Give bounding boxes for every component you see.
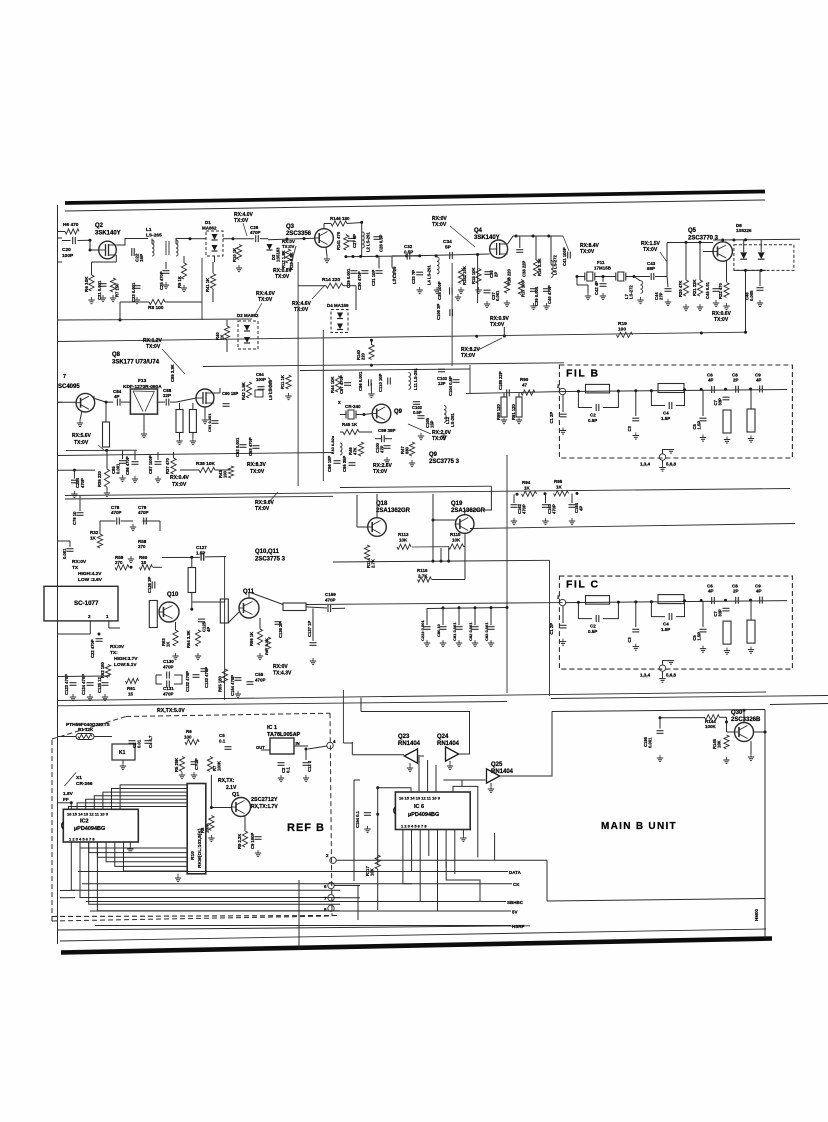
svg-text:IC 6: IC 6 — [414, 804, 424, 810]
svg-text:X1: X1 — [76, 775, 82, 781]
capacitor C26 470P — [233, 225, 268, 242]
svg-text:C222 0.001: C222 0.001 — [420, 620, 425, 641]
wire Q10 collector — [190, 593, 193, 611]
svg-text:1.5P: 1.5P — [661, 416, 670, 421]
voltage block RXTX HIGH — [72, 559, 103, 583]
svg-text:L2 LS-291: L2 LS-291 — [366, 232, 371, 252]
wire q19 net — [432, 519, 451, 563]
resistor R18 220 — [504, 268, 512, 306]
wire sc1077 outs — [58, 628, 121, 634]
wire bus y692 long — [58, 692, 767, 701]
svg-text:C40 470P: C40 470P — [547, 285, 552, 304]
svg-text:1.5P: 1.5P — [697, 421, 702, 430]
svg-text:0.1: 0.1 — [286, 767, 291, 773]
resistor R19 100 — [617, 321, 633, 337]
resistor R6 10K — [84, 275, 94, 292]
svg-text:Q8: Q8 — [112, 352, 121, 358]
resistor R42 1.5K — [241, 382, 252, 400]
resistor R66 1K — [249, 618, 263, 660]
svg-text:470P: 470P — [255, 678, 266, 683]
IC6 notch — [394, 807, 396, 814]
svg-text:470P: 470P — [163, 692, 174, 697]
wire vertical x343 — [342, 690, 344, 743]
svg-text:0.001: 0.001 — [62, 548, 67, 559]
svg-text:Q23: Q23 — [398, 734, 410, 740]
voltage RX2.6 — [373, 463, 393, 475]
bus SBHBC — [86, 900, 524, 905]
ground C21 — [100, 295, 106, 302]
voltage RX0V top — [432, 216, 447, 228]
svg-text:C124 470P: C124 470P — [81, 674, 86, 695]
svg-text:RX:0.4V: RX:0.4V — [170, 475, 190, 481]
capacitor C102 0.5P — [412, 402, 423, 415]
svg-text:C87 100P: C87 100P — [148, 455, 153, 474]
pointer Q4 — [450, 226, 475, 247]
IC6 bottom pin wires — [403, 830, 455, 875]
bus DATA — [78, 870, 522, 875]
transistor Q4 label — [474, 228, 500, 241]
capacitor C5 01 — [219, 733, 232, 749]
svg-text:C194 0.1: C194 0.1 — [355, 810, 360, 828]
bottom heavy border bar — [61, 939, 772, 953]
ground Q8 boxes — [176, 433, 196, 445]
svg-text:RX,TX:: RX,TX: — [218, 778, 235, 784]
svg-text:K1: K1 — [119, 750, 126, 756]
ground R10 bottom — [175, 874, 181, 882]
svg-text:REF B: REF B — [287, 822, 325, 834]
capacitor C79 470P — [130, 505, 160, 531]
capacitor C25 470P — [159, 262, 170, 290]
svg-text:C25 470P: C25 470P — [159, 271, 164, 290]
svg-text:C132 470P: C132 470P — [185, 671, 190, 692]
svg-text:2P: 2P — [493, 272, 498, 277]
svg-text:15P: 15P — [139, 254, 144, 262]
main b unit top edge — [552, 710, 765, 712]
capacitor C33 7P — [411, 270, 423, 294]
capacitor C78 470P — [100, 505, 133, 525]
resistor R65 180 — [218, 669, 228, 692]
wire bus y929 — [58, 926, 531, 930]
capacitor C2 01b — [278, 763, 291, 782]
svg-text:RN1404: RN1404 — [437, 741, 460, 747]
resistor R64 3.3K — [186, 630, 201, 660]
resistor R17 100 — [518, 280, 525, 298]
inductor L12 LS-291 — [441, 406, 455, 440]
svg-text:TX:0V: TX:0V — [146, 344, 161, 350]
svg-text:R91 120: R91 120 — [511, 403, 516, 420]
inductor L1 label — [146, 227, 162, 239]
svg-text:Q24: Q24 — [437, 734, 449, 740]
svg-text:C80 10: C80 10 — [436, 623, 441, 637]
svg-text:C38 22P: C38 22P — [522, 260, 527, 277]
ground Q8 source — [202, 407, 208, 424]
svg-text:3SK140Y: 3SK140Y — [95, 231, 121, 237]
svg-text:MAIN B UNIT: MAIN B UNIT — [601, 821, 677, 832]
svg-text:R12 1.8K: R12 1.8K — [281, 250, 286, 268]
wire x361 stub — [360, 698, 362, 712]
voltage RX8.2 — [461, 338, 502, 359]
svg-text:SC-1077: SC-1077 — [74, 600, 99, 607]
node dot Q2 in — [89, 239, 92, 252]
svg-text:TX:0V: TX:0V — [373, 469, 388, 475]
resistor R141 470 — [336, 223, 362, 257]
capacitor C122 C123 C124 C125 — [64, 674, 109, 701]
svg-text:C42 4P: C42 4P — [594, 281, 599, 295]
wire ic1 top — [282, 728, 284, 741]
svg-text:C83 0.001: C83 0.001 — [484, 622, 489, 641]
inductor L2 — [362, 232, 370, 252]
svg-text:2P: 2P — [733, 589, 739, 594]
IC2 label — [74, 819, 105, 833]
svg-text:C90 18P: C90 18P — [222, 391, 239, 396]
resistor R144 100K — [705, 715, 720, 729]
svg-text:100: 100 — [618, 327, 626, 333]
svg-text:4P: 4P — [579, 506, 584, 511]
wire bus y561 — [333, 560, 550, 562]
svg-text:C29 0.001: C29 0.001 — [346, 268, 351, 288]
ground IC6 pin8 — [460, 830, 466, 842]
capacitor C104 0.5P — [448, 376, 460, 396]
svg-text:C91 0.001: C91 0.001 — [207, 413, 212, 432]
inductor L1b coil — [176, 240, 178, 256]
svg-text:470P: 470P — [522, 504, 527, 514]
wire main box corner vert — [494, 833, 496, 860]
ground R142 R15 — [458, 287, 482, 294]
voltage RXTX 5.0V — [157, 708, 185, 714]
resistor R90 47 — [520, 377, 535, 395]
svg-text:R99 120: R99 120 — [496, 403, 501, 420]
svg-text:RX,TX:1.7V: RX,TX:1.7V — [251, 804, 278, 810]
svg-text:TX:0V: TX:0V — [490, 322, 505, 328]
capacitor C85 0.001 — [111, 450, 126, 474]
svg-text:RX:8.3V: RX:8.3V — [247, 462, 267, 468]
svg-text:TX:0V: TX:0V — [643, 247, 658, 253]
svg-text:4P: 4P — [708, 589, 714, 594]
ground C25 — [163, 282, 169, 289]
svg-text:100K: 100K — [217, 761, 222, 771]
svg-text:C81 0.001: C81 0.001 — [452, 622, 457, 641]
capacitor C126 3P — [147, 576, 155, 593]
svg-text:C89 3.3K: C89 3.3K — [170, 364, 175, 382]
svg-text:2SC3775 3: 2SC3775 3 — [429, 459, 460, 465]
svg-text:TX:0V: TX:0V — [432, 436, 447, 442]
capacitor C163 470P — [542, 494, 557, 525]
bottom thin border line — [60, 929, 766, 941]
svg-text:270: 270 — [115, 560, 123, 565]
inductor L9 LS-265 — [268, 378, 273, 400]
svg-text:4P: 4P — [206, 627, 211, 632]
wire Q11 base — [228, 612, 239, 623]
wire H6 left — [58, 231, 66, 233]
svg-text:C34: C34 — [443, 239, 452, 245]
svg-text:R1 12K: R1 12K — [78, 727, 94, 732]
svg-text:0.5P: 0.5P — [404, 250, 413, 255]
capacitor C80 10 — [436, 606, 447, 646]
transistor SC4095 label — [58, 374, 80, 390]
diode D1 dashed box — [206, 231, 223, 256]
svg-text:C12 2: C12 2 — [307, 760, 312, 772]
svg-text:C3: C3 — [627, 425, 632, 431]
svg-text:TX:4.3V: TX:4.3V — [273, 671, 292, 677]
svg-text:LOW :3.6V: LOW :3.6V — [78, 577, 103, 583]
svg-text:1.5P: 1.5P — [697, 632, 702, 641]
svg-text:Q25: Q25 — [491, 762, 503, 768]
svg-text:5P: 5P — [445, 245, 452, 251]
bus HSRF — [95, 924, 525, 929]
svg-text:R115: R115 — [450, 532, 461, 537]
svg-text:C96 0.001: C96 0.001 — [358, 371, 363, 391]
capacitor C34 5P — [443, 239, 452, 259]
transistor Q1 label — [232, 792, 278, 810]
capacitor C155 470P — [247, 672, 266, 684]
wire IC2 fan to bus — [71, 842, 340, 911]
svg-text:µPD4094BG: µPD4094BG — [408, 812, 439, 818]
wire F11 out up — [666, 258, 668, 277]
svg-text:R41 1K: R41 1K — [205, 278, 210, 292]
label 1.8V FF — [63, 791, 74, 803]
wire Q19 vert link — [464, 533, 466, 561]
svg-text:C23 0.001: C23 0.001 — [131, 282, 136, 302]
resistor box pre-Q10 — [149, 601, 157, 628]
IC1 out in — [256, 741, 308, 750]
svg-text:C82 0.001: C82 0.001 — [468, 622, 473, 641]
wire x377 to IC6 — [378, 788, 411, 792]
transistor Q1 — [232, 798, 251, 817]
svg-text:RN1404: RN1404 — [491, 769, 514, 775]
wire top signal D1 — [189, 237, 235, 240]
voltage RX4.0 mid — [255, 291, 276, 315]
wire Q3-Q4 link — [392, 254, 438, 257]
svg-text:470P: 470P — [325, 598, 336, 603]
capacitor C110 10P — [378, 373, 390, 392]
wire vertical x470a — [469, 365, 471, 394]
capacitor C97 470P — [338, 375, 351, 406]
inductor L10 0.82u — [330, 435, 342, 455]
resistor box left net — [103, 402, 110, 447]
capacitor C41 100P — [562, 236, 570, 266]
wire Q8 drain — [214, 388, 220, 393]
svg-text:D4 MA159: D4 MA159 — [327, 303, 349, 308]
svg-text:C188 22P: C188 22P — [498, 371, 503, 390]
svg-text:220: 220 — [361, 352, 366, 360]
wire IC2 top pin loops — [69, 785, 188, 809]
node 7 refb — [324, 895, 334, 901]
voltage RX1.2 — [143, 338, 185, 374]
svg-text:Q10,Q11: Q10,Q11 — [255, 549, 280, 555]
resistor H6 470 — [65, 229, 79, 234]
svg-text:TX:0V: TX:0V — [282, 244, 295, 249]
svg-text:C99 39P: C99 39P — [378, 428, 396, 433]
svg-text:C127: C127 — [196, 545, 207, 550]
IC2 notch — [62, 822, 64, 829]
svg-text:FIL C: FIL C — [566, 579, 600, 591]
wire y898 out — [334, 897, 360, 899]
capacitor C130 470P — [163, 659, 174, 679]
svg-text:1K: 1K — [90, 536, 97, 541]
main b unit right edge — [764, 710, 766, 939]
wire Q9 base — [364, 414, 372, 415]
buffer Q24 — [446, 747, 459, 761]
svg-text:R38 10K: R38 10K — [196, 461, 215, 467]
svg-text:C93 470P: C93 470P — [248, 437, 253, 456]
capacitor C45 0.01 — [705, 281, 720, 306]
module FIL B — [549, 365, 792, 471]
capacitor C32 0.5P — [404, 244, 413, 260]
svg-text:TX:0V: TX:0V — [258, 297, 273, 303]
module REF B dashed box — [52, 713, 332, 921]
module FIL C — [549, 576, 792, 682]
wire Q8 gate feed — [176, 398, 196, 402]
svg-text:R42 1.5K: R42 1.5K — [241, 382, 246, 400]
svg-text:100P: 100P — [62, 253, 74, 259]
wire collector run — [93, 396, 106, 402]
svg-text:Q9: Q9 — [429, 452, 438, 458]
diode D1 label — [202, 220, 217, 231]
resistor R15 10K — [471, 267, 481, 284]
svg-text:10K: 10K — [399, 538, 408, 543]
capacitor C89 33K label — [170, 364, 175, 382]
capacitor C195 0.001 — [643, 718, 664, 762]
cap C91 0.001 — [207, 413, 219, 432]
transistor Q18 label — [376, 501, 411, 514]
svg-text:C123 470P: C123 470P — [64, 674, 69, 695]
diode D4 dashed box — [331, 310, 348, 333]
wire L1b up — [176, 239, 190, 244]
diode D1a — [212, 234, 218, 240]
wire IC6 pin3 down — [419, 850, 421, 902]
crystal F11a — [576, 272, 595, 281]
wire bus y341-332 long — [58, 332, 746, 341]
svg-text:C154 470P: C154 470P — [230, 675, 235, 696]
capacitor C103 12P — [437, 369, 448, 386]
capacitor C93 470P — [248, 437, 260, 456]
capacitor C128 4P — [198, 619, 211, 632]
resistor box post-Q11 — [283, 603, 306, 611]
svg-text:FF: FF — [63, 797, 69, 803]
pointer line RX4.0 — [243, 223, 247, 236]
svg-text:2.1V: 2.1V — [226, 785, 237, 791]
wire bus y366 — [203, 363, 564, 367]
svg-text:R15 10K: R15 10K — [471, 267, 476, 284]
ground C23 — [134, 297, 140, 304]
wire bus y699 — [58, 702, 508, 706]
wire Q4 gate line — [410, 254, 490, 256]
voltage RX0 TX43 — [273, 664, 292, 677]
svg-text:1,3,4: 1,3,4 — [640, 673, 651, 678]
capacitor C83 0.001 — [484, 606, 495, 647]
transistor Q11 — [239, 598, 259, 618]
wire y860 out — [336, 859, 547, 861]
resistor R58 270 — [138, 539, 147, 549]
svg-text:L10 0.82u: L10 0.82u — [330, 435, 335, 454]
wire y450 Q stage — [66, 449, 137, 451]
resistor R11 1K — [280, 375, 292, 400]
voltage RX0.6 — [712, 311, 732, 323]
resistor R38 10K — [180, 461, 230, 473]
transistor Q30 — [735, 723, 754, 742]
wire bus y455 — [58, 453, 334, 456]
node dot SC4095 out — [105, 401, 108, 404]
ground F11a — [577, 277, 591, 300]
svg-text:x: x — [338, 400, 341, 406]
svg-text:C106 3P: C106 3P — [436, 303, 441, 320]
relay K1 box — [112, 744, 135, 760]
svg-text:CR-240: CR-240 — [345, 404, 361, 409]
wire IC6 pin13 up — [419, 755, 436, 792]
svg-text:µPD4094BG: µPD4094BG — [74, 826, 105, 832]
svg-text:C3: C3 — [627, 637, 632, 643]
capacitor C22 15P — [132, 248, 144, 262]
wire IC6 pin6 down — [446, 862, 480, 902]
svg-text:C2: C2 — [590, 624, 596, 629]
svg-text:C98 18P: C98 18P — [327, 455, 332, 472]
svg-text:C4: C4 — [663, 411, 669, 416]
svg-text:C55: C55 — [255, 672, 264, 677]
svg-text:4P: 4P — [114, 394, 120, 399]
svg-text:C137 1P: C137 1P — [307, 620, 312, 637]
resistor R99 120 — [496, 393, 507, 420]
resistor R8 100K — [200, 816, 215, 842]
resistor R10 box — [187, 784, 206, 874]
svg-text:R6: R6 — [186, 729, 192, 734]
svg-text:D2 MA862: D2 MA862 — [237, 313, 259, 318]
svg-text:L4 LS-291: L4 LS-291 — [427, 265, 432, 285]
label HM00 — [754, 908, 759, 921]
capacitor C27 6P — [348, 234, 357, 248]
resistor R9 1K — [177, 256, 187, 288]
svg-text:470P: 470P — [138, 510, 149, 515]
transistor Q8 label — [112, 352, 160, 366]
crystal X1 label — [76, 775, 93, 787]
svg-text:TX:0V: TX:0V — [250, 469, 265, 475]
node 2 refb — [326, 853, 336, 864]
wire vert x358 bottom — [357, 886, 359, 921]
node 4 on dashed — [308, 739, 336, 749]
resistor box Q8b — [189, 403, 196, 433]
svg-text:F11: F11 — [597, 260, 605, 265]
svg-text:2.7K: 2.7K — [418, 574, 428, 579]
svg-text:RX:0V: RX:0V — [72, 559, 87, 565]
svg-text:0.005: 0.005 — [749, 290, 754, 301]
resistor R91 120 — [501, 393, 522, 424]
IC SC-1077 box — [44, 586, 118, 621]
svg-text:DATA: DATA — [509, 870, 522, 875]
svg-text:TX:0V: TX:0V — [580, 249, 595, 255]
resistor R1 12K — [76, 727, 94, 740]
bus 5V — [90, 910, 518, 915]
svg-text:0.001: 0.001 — [495, 290, 500, 301]
wire Q18 base — [357, 495, 368, 527]
buffer Q23 label — [398, 734, 421, 747]
transistor Q3 — [315, 229, 334, 248]
wire Q2 in vert — [89, 240, 91, 250]
node dot R19 — [700, 332, 703, 335]
svg-text:C1 2P: C1 2P — [549, 623, 554, 635]
ground SC4095 emitter — [77, 411, 83, 427]
svg-text:C5: C5 — [219, 733, 225, 738]
svg-text:R5 20K: R5 20K — [174, 758, 179, 772]
svg-text:Q2: Q2 — [95, 223, 104, 229]
wire R8 run — [119, 302, 203, 322]
capacitor C154 470P — [230, 675, 242, 698]
crystal F11b — [595, 272, 636, 281]
capacitor C87 100P — [148, 452, 162, 483]
resistor R32 1K — [90, 530, 103, 548]
transistor Q2 label — [95, 223, 121, 237]
svg-text:C9 100P: C9 100P — [250, 832, 255, 849]
svg-text:R10 1K: R10 1K — [232, 248, 237, 262]
diode D2b — [244, 337, 250, 343]
